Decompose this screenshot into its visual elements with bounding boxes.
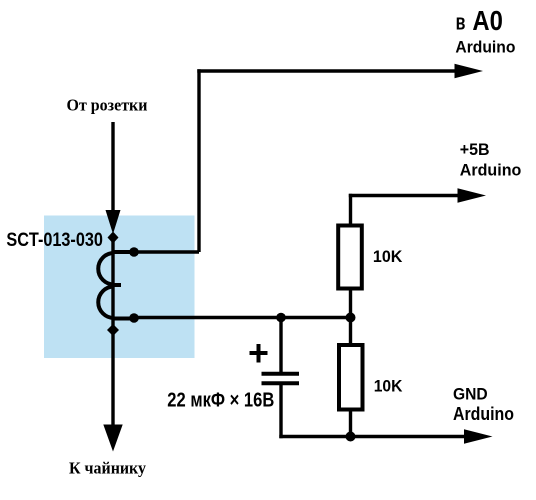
capacitor C1 polarity "+": [250, 351, 268, 355]
svg-text:Arduino: Arduino: [455, 37, 515, 56]
node (secondary top terminal): [129, 247, 139, 257]
node (primary top): [108, 232, 119, 244]
svg-text:A0: A0: [472, 5, 503, 36]
transformer SCT-013-030 body (highlight box): [44, 216, 195, 359]
node (primary bottom): [107, 324, 119, 336]
transformer T1 secondary coil: [98, 252, 136, 319]
wire (midpoint down to R2): [349, 318, 352, 346]
wire (capacitor bottom lead): [279, 383, 282, 438]
wire (+5V output): [349, 194, 458, 197]
svg-text:К чайнику: К чайнику: [69, 458, 147, 477]
wire (primary out to kettle): [111, 330, 114, 427]
wire (capacitor top lead): [279, 318, 282, 373]
wire (to A0 output): [197, 69, 455, 72]
node (divider midpoint junction): [346, 313, 356, 323]
svg-text:SCT-013-030: SCT-013-030: [6, 229, 103, 251]
resistor R2: [339, 345, 363, 410]
wire (R1 bottom to midpoint): [349, 291, 352, 318]
node (ground rail junction): [346, 432, 356, 442]
svg-text:Arduino: Arduino: [453, 404, 514, 424]
capacitor C1 plate (bottom): [262, 381, 300, 385]
wire (+5V rail down to R1): [349, 194, 352, 224]
svg-text:+5В: +5В: [460, 140, 490, 159]
node (secondary bottom terminal): [129, 313, 139, 323]
arrow (to GND Arduino): [464, 429, 493, 444]
svg-text:Arduino: Arduino: [460, 160, 522, 179]
arrow (into transformer): [106, 210, 121, 234]
wire (primary through transformer): [111, 237, 114, 330]
arrow (to A0 Arduino): [455, 64, 484, 79]
resistor R1: [338, 226, 362, 289]
arrow (to +5V Arduino): [458, 188, 487, 203]
svg-text:От розетки: От розетки: [67, 96, 148, 115]
arrow (to kettle): [103, 425, 122, 452]
svg-text:GND: GND: [453, 385, 488, 403]
wire (secondary bottom to divider midpoint): [134, 316, 351, 319]
wire (riser up): [197, 69, 200, 252]
svg-text:22 мкФ × 16В: 22 мкФ × 16В: [167, 390, 274, 412]
wire (ground rail): [279, 435, 464, 438]
node (capacitor tap junction): [276, 313, 286, 323]
wire (R2 bottom to ground rail): [349, 410, 352, 437]
svg-text:10K: 10K: [374, 378, 403, 396]
svg-text:в: в: [456, 10, 466, 35]
wire (secondary top to riser): [134, 250, 199, 253]
capacitor C1 plate (top): [262, 372, 300, 376]
wire (from socket, primary input): [111, 122, 114, 212]
svg-text:10K: 10K: [373, 248, 403, 266]
